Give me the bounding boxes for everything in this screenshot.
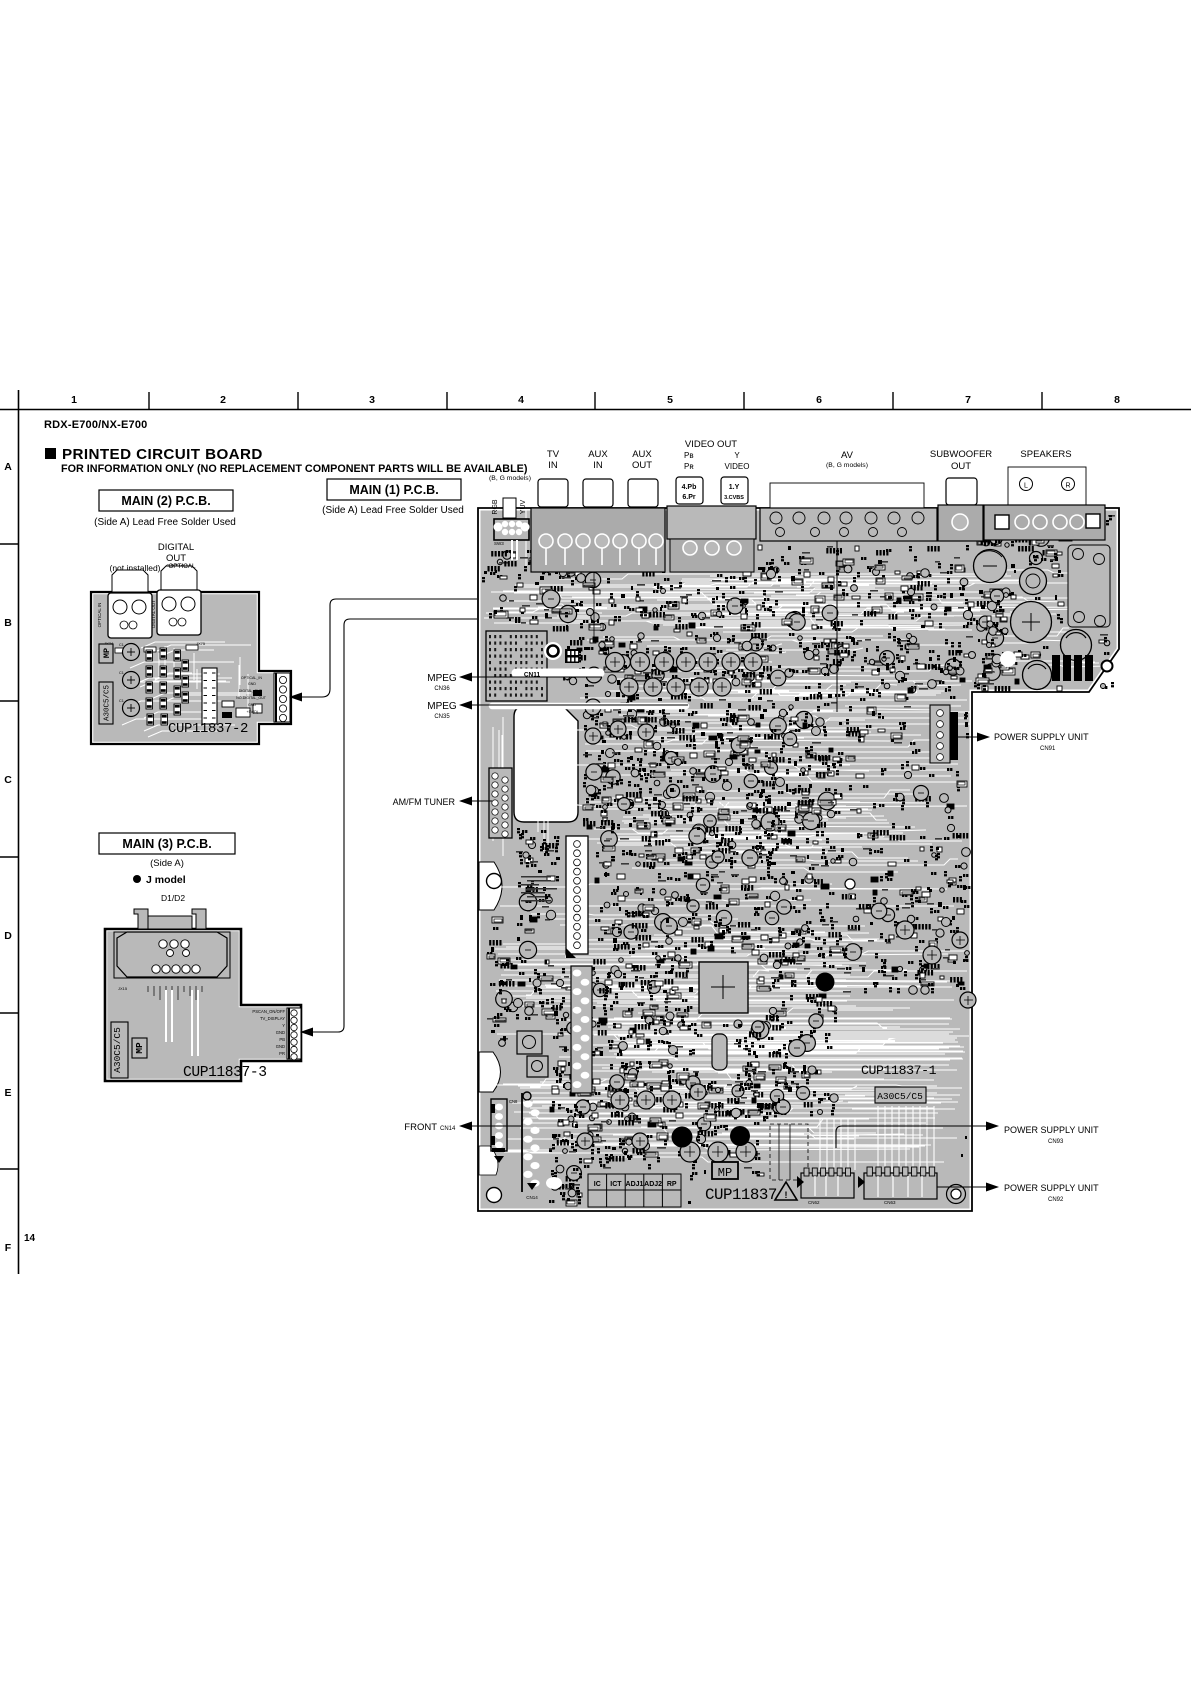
- svg-text:CUP11837-1: CUP11837-1: [861, 1063, 937, 1078]
- video out jack Pb/Pr: [676, 477, 703, 504]
- connector CN2 (AM/FM tuner): [489, 768, 512, 838]
- svg-text:+5V(D): +5V(D): [247, 710, 258, 714]
- dashed transformer box: [770, 1124, 808, 1180]
- SW3 switch block: [494, 519, 530, 560]
- svg-text:SPEAKERS: SPEAKERS: [1020, 449, 1071, 460]
- svg-text:14: 14: [24, 1233, 36, 1244]
- RGB/YUV jumper connector: [503, 498, 516, 518]
- black caps bottom: [672, 1127, 693, 1148]
- svg-text:GND: GND: [276, 1044, 285, 1049]
- svg-text:CUP11837-2: CUP11837-2: [168, 721, 248, 737]
- net labels at arm connector board3: [252, 1009, 285, 1056]
- svg-text:AM/FM TUNER: AM/FM TUNER: [393, 797, 456, 807]
- big cap C538: [1011, 602, 1052, 643]
- svg-text:IN: IN: [548, 460, 558, 471]
- svg-text:2: 2: [220, 394, 226, 406]
- IC ICT ADJ table: [588, 1174, 681, 1207]
- jumper block right of hole: [565, 649, 579, 663]
- svg-text:PSCAN_ON/OFF: PSCAN_ON/OFF: [252, 1009, 285, 1014]
- connector CN62: [797, 1168, 854, 1205]
- arrowhead board3: [300, 1028, 313, 1037]
- svg-text:C1: C1: [119, 699, 124, 703]
- svg-text:MPEG: MPEG: [427, 673, 457, 684]
- white pad blob: [546, 1177, 562, 1189]
- svg-text:VIDEO: VIDEO: [725, 462, 750, 471]
- label MAIN (2) P.C.B.: [94, 490, 236, 528]
- svg-text:Pʀ: Pʀ: [684, 462, 694, 471]
- white trace pair 2: [192, 990, 198, 1056]
- svg-text:FRONT: FRONT: [404, 1122, 437, 1133]
- optical connector trapezoid right: [161, 566, 197, 592]
- svg-text:7: 7: [965, 394, 971, 406]
- svg-text:L: L: [1024, 483, 1028, 490]
- svg-text:3.CVBS: 3.CVBS: [724, 495, 744, 501]
- warning triangle: [775, 1182, 797, 1200]
- CN3 switch: [527, 1056, 548, 1077]
- svg-text:PR: PR: [279, 1051, 285, 1056]
- D1/D2 connector body: [114, 932, 230, 978]
- connector CN4 lower pad column: [571, 966, 592, 1093]
- svg-text:IN: IN: [593, 460, 603, 471]
- video out jack Y/CVBS: [721, 477, 748, 504]
- crystal X701: [712, 1034, 727, 1070]
- speakers connector outline: [1008, 467, 1086, 505]
- optical jack body left (OPTICAL IN): [108, 593, 152, 638]
- svg-text:POWER SUPPLY UNIT: POWER SUPPLY UNIT: [1004, 1183, 1099, 1193]
- section heading PRINTED CIRCUIT BOARD: [45, 446, 528, 475]
- svg-text:(Side A) Lead Free Solder Used: (Side A) Lead Free Solder Used: [322, 505, 464, 516]
- svg-text:!: !: [785, 1190, 788, 1200]
- IC main square: [699, 962, 748, 1013]
- svg-text:MP: MP: [102, 648, 112, 658]
- svg-text:CN91: CN91: [1040, 746, 1056, 752]
- svg-text:1: 1: [71, 394, 77, 406]
- connector CN63: [858, 1167, 937, 1205]
- connector JX16 in board3 arm: [287, 1008, 301, 1060]
- svg-text:CN35: CN35: [434, 714, 450, 720]
- svg-text:(Side A): (Side A): [150, 858, 184, 869]
- svg-text:VIDEO OUT: VIDEO OUT: [685, 439, 737, 450]
- svg-text:TV: TV: [547, 449, 560, 460]
- svg-text:CN62: CN62: [808, 1200, 820, 1205]
- svg-text:GND: GND: [248, 703, 256, 707]
- electrolytic caps board2: [119, 643, 140, 717]
- subwoofer plate: [938, 505, 983, 541]
- AUX IN jack: [583, 479, 613, 507]
- PCB CUP11837-3 outline: [105, 929, 301, 1081]
- big cap L543: [1061, 630, 1092, 661]
- mounting hole near CN11: [544, 642, 562, 660]
- MP box board2: [99, 644, 113, 663]
- FRONT CN14 callout: [404, 1122, 521, 1134]
- svg-text:CN14: CN14: [440, 1126, 456, 1132]
- mounting hole right edge: [1102, 661, 1113, 672]
- small parts right of IC: [222, 690, 262, 718]
- svg-text:R: R: [1065, 483, 1070, 490]
- page border frame: [0, 390, 1191, 1274]
- grid column numbers: [71, 394, 1120, 406]
- svg-text:PRINTED CIRCUIT BOARD: PRINTED CIRCUIT BOARD: [62, 446, 263, 463]
- svg-text:D: D: [4, 930, 12, 942]
- svg-text:RGB: RGB: [492, 499, 499, 515]
- connector CN14 (FRONT): [522, 1092, 540, 1200]
- svg-text:POWER SUPPLY UNIT: POWER SUPPLY UNIT: [994, 732, 1089, 742]
- svg-text:A30C5/C5: A30C5/C5: [112, 1027, 123, 1073]
- svg-text:A30C5/C5: A30C5/C5: [877, 1091, 923, 1102]
- svg-text:YUV: YUV: [520, 499, 527, 514]
- svg-text:ICT: ICT: [610, 1181, 622, 1188]
- mounting hole bottom right: [947, 1185, 966, 1204]
- speaker terminal block: [984, 505, 1105, 540]
- svg-text:(B, G models): (B, G models): [489, 475, 531, 482]
- svg-text:MP: MP: [718, 1166, 732, 1180]
- svg-text:DIGITAL: DIGITAL: [158, 542, 194, 553]
- svg-text:JX15: JX15: [118, 986, 128, 991]
- MPEG CN35 callout: [427, 701, 688, 721]
- A30C5/C5 box board3: [111, 1022, 128, 1078]
- component texture field (decorative): [482, 508, 1115, 1206]
- AV connector outline (white): [770, 483, 924, 508]
- D1/D2 connector pins above board: [134, 909, 206, 929]
- black transistor dot: [816, 973, 835, 992]
- svg-text:Pʙ: Pʙ: [684, 451, 694, 460]
- svg-text:AUX: AUX: [632, 449, 652, 460]
- POWER SUPPLY UNIT CN92 callout: [937, 1183, 1099, 1204]
- svg-text:(Side A) Lead Free Solder Used: (Side A) Lead Free Solder Used: [94, 517, 236, 528]
- vertical DIP IC board2: [202, 668, 217, 724]
- PCB CUP11837-2 outline: [91, 592, 291, 744]
- main PCB CUP11837-1 outline: [478, 508, 1119, 1211]
- MP box board3: [132, 1038, 147, 1058]
- svg-text:OPTICAL_IN: OPTICAL_IN: [241, 676, 262, 680]
- white hole near L543: [1000, 651, 1016, 667]
- svg-text:IC: IC: [594, 1181, 601, 1188]
- connector CN40: [566, 836, 588, 958]
- svg-text:B: B: [4, 617, 12, 629]
- big cap C544: [974, 550, 1007, 583]
- svg-text:C1: C1: [119, 671, 124, 675]
- optical connector trapezoid left: [112, 570, 148, 592]
- left edge notch 1: [479, 862, 502, 910]
- big cap L542: [1020, 568, 1047, 595]
- svg-text:GND: GND: [248, 682, 256, 686]
- svg-text:6: 6: [816, 394, 822, 406]
- inductor bars bottom right power: [1052, 655, 1093, 681]
- label MAIN (3) P.C.B.: [99, 833, 235, 869]
- AUX OUT jack: [628, 479, 658, 507]
- MPEG CN36 callout: [427, 672, 602, 693]
- label AV B G models: [826, 450, 868, 469]
- arrowhead board2: [289, 693, 302, 702]
- svg-text:4: 4: [518, 394, 524, 406]
- POWER SUPPLY UNIT CN91 callout: [958, 732, 1089, 752]
- connector JX73 in board2 arm: [274, 673, 290, 722]
- svg-text:CUP11837: CUP11837: [705, 1186, 777, 1204]
- svg-text:MPEG: MPEG: [427, 701, 457, 712]
- svg-text:C: C: [4, 774, 12, 786]
- svg-text:OUT: OUT: [632, 460, 652, 471]
- component grid board2: [146, 648, 189, 725]
- svg-text:SUBWOOFER: SUBWOOFER: [930, 449, 992, 460]
- jack plate holes: [539, 534, 663, 565]
- label MAIN (1) P.C.B.: [322, 479, 464, 516]
- svg-text:CN36: CN36: [434, 686, 450, 692]
- label VIDEO OUT: [684, 439, 749, 471]
- svg-text:SW3: SW3: [494, 541, 504, 546]
- svg-text:(B, G models): (B, G models): [826, 462, 868, 469]
- svg-text:CN14: CN14: [526, 1195, 538, 1200]
- tiny net labels board2 arm: [236, 676, 267, 714]
- svg-text:ADJ1: ADJ1: [626, 1181, 644, 1188]
- svg-text:DIGITAL_OUT: DIGITAL_OUT: [239, 689, 263, 693]
- svg-text:MP: MP: [134, 1042, 145, 1054]
- TM1 switch: [517, 1031, 542, 1054]
- board2 trace texture (decorative): [122, 642, 251, 737]
- big cap L541: [1023, 661, 1052, 690]
- svg-text:PB: PB: [279, 1037, 285, 1042]
- bottom left corner arc cutout: [479, 1146, 498, 1175]
- connector CN11 block: [486, 631, 547, 701]
- svg-text:AV: AV: [841, 450, 854, 461]
- tiny vertical net labels board3: [148, 986, 202, 1000]
- grid row letters: [4, 461, 12, 1254]
- mounting hole left mid: [487, 874, 502, 889]
- left edge notch 2: [479, 1052, 501, 1092]
- svg-text:CN92: CN92: [1048, 1197, 1064, 1203]
- POWER SUPPLY UNIT CN93 callout: [836, 1122, 1099, 1149]
- wire callout to board2: [302, 599, 477, 697]
- svg-text:6.Pr: 6.Pr: [682, 494, 696, 501]
- CN91 power connector bar: [930, 705, 958, 763]
- video plate holes: [683, 541, 741, 555]
- svg-text:RDX-E700/NX-E700: RDX-E700/NX-E700: [44, 419, 147, 431]
- connector CN8: [491, 1099, 518, 1163]
- svg-text:POWER SUPPLY UNIT: POWER SUPPLY UNIT: [1004, 1125, 1099, 1135]
- svg-text:ADJ2: ADJ2: [644, 1181, 662, 1188]
- A30C5/C5 box main: [875, 1087, 926, 1103]
- AV scart body on board: [760, 508, 937, 541]
- svg-text:RP: RP: [667, 1181, 677, 1188]
- svg-text:DIGITAL OUT: DIGITAL OUT: [151, 600, 156, 628]
- MP box main: [712, 1162, 738, 1180]
- svg-text:J model: J model: [146, 874, 186, 886]
- power heatsink block: [1068, 545, 1110, 627]
- svg-text:NO-DIGITAL_OUT: NO-DIGITAL_OUT: [236, 696, 267, 700]
- svg-text:CN63: CN63: [884, 1200, 896, 1205]
- svg-text:OPTICAL IN: OPTICAL IN: [97, 603, 102, 628]
- svg-text:C1: C1: [119, 643, 124, 647]
- TV IN jack: [538, 479, 568, 507]
- label SUBWOOFER OUT: [930, 449, 992, 472]
- svg-text:OUT: OUT: [951, 461, 971, 472]
- svg-text:5: 5: [667, 394, 673, 406]
- svg-text:MAIN (2) P.C.B.: MAIN (2) P.C.B.: [121, 494, 210, 508]
- mounting hole bottom left: [487, 1188, 502, 1203]
- svg-text:TV_DISPLAY: TV_DISPLAY: [260, 1016, 285, 1021]
- svg-text:3: 3: [369, 394, 375, 406]
- svg-text:Y: Y: [282, 1023, 285, 1028]
- jumper chips row: [115, 645, 198, 653]
- svg-text:F: F: [5, 1242, 12, 1254]
- svg-text:4.Pb: 4.Pb: [682, 484, 697, 491]
- AM/FM TUNER callout: [393, 797, 492, 808]
- svg-text:E: E: [4, 1087, 11, 1099]
- svg-text:CN11: CN11: [524, 672, 541, 679]
- svg-text:CN8: CN8: [509, 1099, 518, 1104]
- wire callout to board3: [311, 619, 477, 1032]
- optical jack body right (DIGITAL OUT): [157, 590, 201, 635]
- label J model: [133, 874, 186, 886]
- svg-text:GND: GND: [276, 1030, 285, 1035]
- svg-text:OPTICAL: OPTICAL: [169, 563, 196, 570]
- svg-text:Y: Y: [734, 451, 740, 460]
- svg-text:CN93: CN93: [1048, 1139, 1064, 1145]
- subwoofer jack: [946, 478, 977, 505]
- video out plate: [667, 506, 756, 539]
- svg-text:A30C5/C5: A30C5/C5: [104, 685, 112, 722]
- mounting hole center: [845, 879, 855, 889]
- A30C5/C5 box board2: [99, 682, 113, 724]
- TV/AUX jack plate: [531, 508, 665, 572]
- svg-text:1.Y: 1.Y: [729, 484, 740, 491]
- svg-text:AUX: AUX: [588, 449, 608, 460]
- svg-text:CUP11837-3: CUP11837-3: [183, 1065, 267, 1081]
- board cutout hole (rounded): [514, 707, 578, 822]
- white trace pair 1: [166, 990, 172, 1042]
- svg-text:D1/D2: D1/D2: [161, 893, 185, 903]
- svg-text:8: 8: [1114, 394, 1120, 406]
- svg-text:MAIN (3) P.C.B.: MAIN (3) P.C.B.: [122, 837, 211, 851]
- svg-text:FOR INFORMATION ONLY (NO REPLA: FOR INFORMATION ONLY (NO REPLACEMENT COM…: [61, 463, 528, 475]
- svg-text:A: A: [4, 461, 12, 473]
- svg-text:MAIN (1) P.C.B.: MAIN (1) P.C.B.: [349, 483, 438, 497]
- label DIGITAL OUT OPTICAL: [158, 542, 194, 571]
